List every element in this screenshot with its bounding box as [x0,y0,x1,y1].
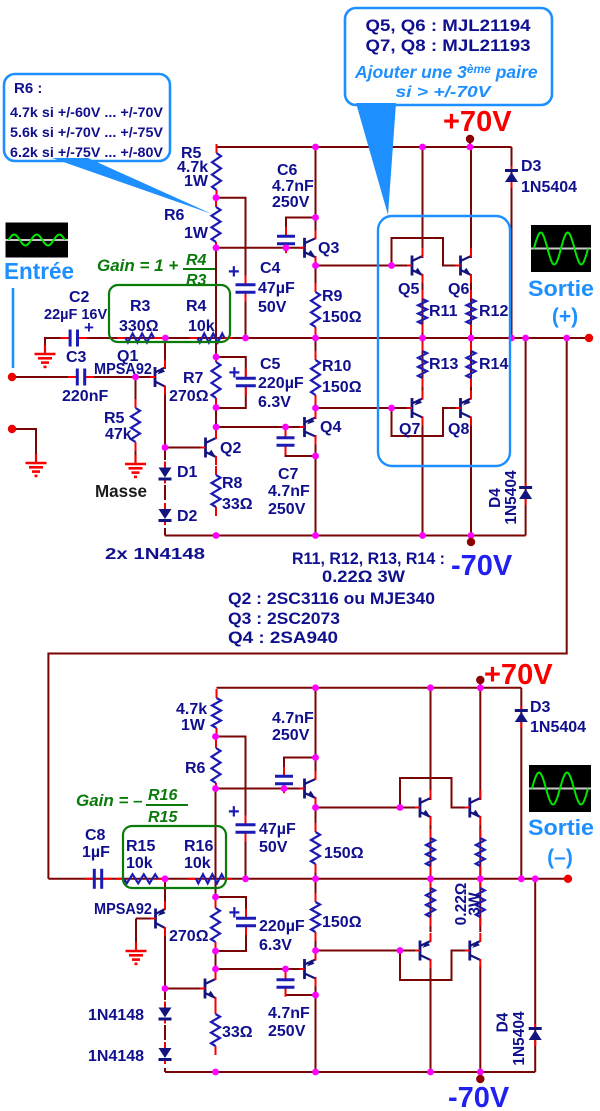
ground Masse R5b [125,455,146,477]
svg-text:Q4: Q4 [320,419,341,436]
wire C4 bottom to feedback rail [245,292,247,338]
label 220uF [258,375,304,392]
diode D3b 1N5404 [515,706,528,728]
label 0.22 rotated [453,883,470,926]
label MPSA92 c2 [94,901,152,918]
label 150 c2a [324,845,364,862]
wire C6b top link [284,758,316,773]
svg-text:1W: 1W [184,173,209,190]
svg-text:C3: C3 [66,349,87,366]
diode D1b 1N4148 [159,1002,172,1024]
label +70V [443,106,512,138]
label 10k [188,318,215,335]
wire output rail 2 [48,878,568,880]
junction2 (215.5,969) [212,966,219,973]
svg-text:R3: R3 [130,298,151,315]
label R11 [429,303,458,320]
resistor 33 c2 [211,1005,220,1055]
svg-text:47µF: 47µF [259,821,296,838]
plus sign C5 [229,362,241,384]
junction2 (521.3,878.8) [518,875,525,882]
svg-text:150Ω: 150Ω [322,914,362,931]
junction (165,447.5) [162,444,169,451]
entree blue lead [12,288,15,368]
capacitor C5 220uF [236,369,256,395]
wire Q7-Q8 base loop [392,408,462,436]
label C6 [277,162,298,179]
label 150 c2b [322,914,362,931]
junction2 (215.5,951) [212,948,219,955]
wire C2 to ground [45,338,71,347]
svg-text:C6: C6 [277,162,298,179]
junction2 (400,807.5) [397,804,404,811]
junction (391.5,408) [388,405,395,412]
label R10 [322,358,351,375]
wire Q4b collector down [315,977,317,1072]
diode D2b 1N4148 [159,1042,172,1064]
junction (315.5,217.5) [312,214,319,221]
label 4.7nF C7 [268,483,310,500]
wire R7 bottom to Q2 [215,408,217,439]
label 22uF 16V [44,307,107,323]
junction2 (165,988.5) [162,985,169,992]
svg-text:33Ω: 33Ω [222,1024,253,1041]
label R14 [479,356,508,373]
resistor R10 150 [311,351,320,404]
junction (422.5,338) [419,335,426,342]
gain formula 2 [76,787,188,826]
wire D4b branch [534,879,536,1072]
wire Q1b collector to D1b [164,928,166,1000]
diode D3 1N5404 [505,166,518,188]
sortie plus scope box [531,225,591,272]
label 3W rotated [467,892,484,916]
wire -70V stub [470,536,472,541]
label 1uF [82,844,110,861]
transistor Q8b [465,933,481,968]
label R9 [322,288,343,305]
junction (315.5,408) [312,405,319,412]
label Q6 [448,281,469,298]
junction (422.5,535.5) [419,532,426,539]
svg-text:47µF: 47µF [258,280,295,297]
svg-text:R16: R16 [148,787,177,804]
svg-text:6.3V: 6.3V [259,937,292,954]
svg-text:3W: 3W [467,892,484,916]
svg-text:220µF: 220µF [259,918,305,935]
wire R10 bottom node [315,395,317,412]
label R3 [130,298,151,315]
resistor R8 33 [212,466,221,516]
wire C3 to Q1 base [89,376,150,378]
wire +70V top rail [217,146,512,148]
resistor R5 4.7k 1W [212,144,221,199]
label D2 [177,508,198,525]
svg-text:D4: D4 [494,1012,511,1032]
wire R7b bottom to Q2b [215,951,217,979]
svg-text:D2: D2 [177,508,198,525]
svg-text:4.7k si +/-60V ... +/-70V: 4.7k si +/-60V ... +/-70V [10,105,163,120]
diode D4 1N5404 [519,483,532,505]
label R8 [222,475,243,492]
svg-text:Q7: Q7 [399,421,420,438]
label 47uF [258,280,295,297]
wire Q4 collector down [315,435,317,536]
entree scope box [6,223,69,258]
svg-text:Q5, Q6 : MJL21194: Q5, Q6 : MJL21194 [366,17,532,35]
svg-text:150Ω: 150Ω [324,845,364,862]
svg-text:C7: C7 [278,466,299,483]
wire Q4 emitter up [315,408,317,419]
wire R5-R6 to C4 top [216,198,246,285]
wire D2b to rail [164,1068,166,1072]
junction (135.5,377) [132,374,139,381]
svg-text:-70V: -70V [448,1082,510,1111]
label 0.22 3W [322,568,405,586]
node -70V c2 [476,1075,484,1083]
label Sortie minus [528,815,594,869]
label Sortie plus [528,276,594,328]
resistor 0.22 c2 Q7 [426,879,435,926]
wire C5b loop [216,897,247,918]
svg-text:C4: C4 [260,260,281,277]
label -70V [451,550,513,582]
junction (216,535.5) [213,532,220,539]
svg-text:6.3V: 6.3V [258,394,291,411]
svg-text:R16: R16 [184,838,213,855]
svg-text:250V: 250V [272,727,310,744]
svg-text:4.7nF: 4.7nF [272,710,314,727]
label Entree [4,258,74,284]
node -70V [467,538,475,546]
wire Q2 base link [165,447,206,449]
label R16 [184,838,213,855]
label 1N5404 D3 [521,179,577,196]
resistor R12 0.22 [467,290,476,333]
label R12 [479,303,508,320]
transistor Q7 [407,391,423,426]
transistor Q4 [300,410,316,445]
svg-text:(–): (–) [547,846,573,869]
wire R11b column [430,825,432,879]
node input terminal [8,373,16,381]
svg-text:1N4148: 1N4148 [88,1007,144,1024]
wire R5b column [135,377,137,408]
junction (216,197.7) [213,194,220,201]
junction2 (315.5,950.5) [312,947,319,954]
junction2 (215.5,897) [212,894,219,901]
label R4 [186,298,207,315]
svg-text:R12: R12 [479,303,508,320]
wire D1b-D2b link [164,1025,166,1040]
junction2 (245.5,878.8) [242,875,249,882]
gain annotation box R15 R16 [123,826,226,888]
wire input2 to ground [12,429,36,455]
resistor 4.7k 1W c2 [212,689,221,737]
svg-text:R4: R4 [186,252,207,269]
wire C7 bottom link [286,448,316,456]
junction2 (430.5,878.8) [427,875,434,882]
label 220nF [62,388,108,405]
wire D2 to bottom rail [164,528,166,536]
label 1N4148 b [88,1048,144,1065]
transistor Q5 [407,248,423,283]
svg-text:R9: R9 [322,288,343,305]
junction2 (284,788.5) [281,785,288,792]
wire Q3b base rail [216,788,305,790]
wire Q7b-Q8b base loop [400,951,469,981]
label 47k [105,426,132,443]
label 1W R6 [184,225,209,242]
wire Q6 collector feed [470,147,472,258]
label D4 rotated [487,488,504,508]
svg-text:22µF 16V: 22µF 16V [44,307,107,323]
wire Q2b base link [165,988,205,990]
junction (216,407.5) [213,404,220,411]
resistor 0.22 c2 Q8 [476,879,485,926]
junction (315.5,147) [312,144,319,151]
junction2 (430.5,1072) [427,1069,434,1076]
svg-text:R6: R6 [164,207,185,224]
transistor Q7b [415,933,431,968]
svg-text:150Ω: 150Ω [322,379,362,396]
junction (216,247.8) [213,244,220,251]
svg-text:R3: R3 [186,272,207,289]
svg-text:(+): (+) [552,305,578,328]
svg-text:+70V: +70V [443,106,512,138]
wire Q7b base rail [316,950,422,952]
junction (285.5,427) [282,424,289,431]
svg-text:+: + [229,902,241,924]
label 250V C7 [268,501,306,518]
resistor 150 c2b [311,893,320,941]
label 10k R16 [184,855,211,872]
wire Q4b emitter up [315,951,317,961]
label 1N5404 D3 c2 [530,719,586,736]
wire R10b bottom node [315,932,317,953]
wire R12 column [470,283,472,338]
wire C5b bottom loop [216,926,247,951]
wire Q1 emitter up [164,338,166,369]
junction (391.5,265.5) [388,262,395,269]
node Sortie+ terminal [585,334,593,342]
resistor R6 1W [212,198,221,251]
wire R13b column [430,879,432,932]
wire C7b bottom link [286,990,316,995]
label 270 [169,388,209,405]
wire Q3 emitter node [315,256,317,292]
svg-text:-70V: -70V [451,550,513,582]
transistor Q3 [300,230,316,265]
wire Q1b emitter up [164,879,166,910]
label C4 [260,260,281,277]
transistor Q4b [300,952,316,987]
junction2 (315.5,807.5) [312,804,319,811]
resistor R16 10k [188,874,232,883]
svg-text:270Ω: 270Ω [169,388,209,405]
label Q8 [448,421,469,438]
svg-text:Q7, Q8 : MJL21193: Q7, Q8 : MJL21193 [366,37,531,55]
wire R14b column [479,879,481,932]
svg-text:6.2k si +/-75V ... +/-80V: 6.2k si +/-75V ... +/-80V [10,145,163,160]
svg-text:10k: 10k [188,318,215,335]
label Q3 [318,240,339,257]
label 1W [184,173,209,190]
label D3 c2 [530,699,551,716]
svg-text:1N4148: 1N4148 [88,1048,144,1065]
svg-text:D3: D3 [530,699,551,716]
label 1N5404 D4 rotated [503,470,520,525]
junction (525.6,338) [522,335,529,342]
wire Q3b collector up [315,688,317,779]
wire D1-D2 link [164,485,166,500]
ground input2 [26,454,47,476]
wire R10 [315,338,317,360]
resistor R7 270 [212,353,221,407]
svg-text:C8: C8 [85,827,106,844]
junction2 (215.5,788.5) [212,785,219,792]
capacitor C6b 4.7nF [275,767,293,793]
svg-text:R6 :: R6 : [14,80,42,97]
label 250V c7b [268,1023,306,1040]
svg-text:1N5404: 1N5404 [511,1011,528,1066]
svg-text:R4: R4 [186,298,207,315]
resistor 0.22 c2 Q6 [476,829,485,875]
junction2 (315.5,757.5) [312,754,319,761]
svg-text:MPSA92: MPSA92 [94,901,152,918]
label 33 c2 [222,1024,253,1041]
svg-text:250V: 250V [268,1023,306,1040]
callout R6 tail [52,158,212,214]
label 220uF c2 [259,918,305,935]
wire D4 branch [525,338,527,536]
junction2 (315.5,878.8) [312,875,319,882]
label 47uF c2 [259,821,296,838]
svg-text:R11: R11 [429,303,458,320]
callout MJL box [345,8,552,105]
label Q2 [220,440,241,457]
junction (471,535.5) [468,532,475,539]
junction2 (480.3,1072) [477,1069,484,1076]
label Q3 type [228,610,340,628]
ground Q1b base [126,942,147,964]
wire R10b [315,879,317,902]
junction (245.5,338) [242,335,249,342]
wire Q8b collector down [479,966,481,1072]
svg-text:2x 1N4148: 2x 1N4148 [105,546,205,563]
wire R6b bottom to R7b [215,789,217,898]
wire Q6b collector feed [479,688,481,800]
label D1 [177,464,198,481]
svg-text:50V: 50V [259,839,288,856]
svg-text:1N5404: 1N5404 [521,179,577,196]
svg-text:0.22Ω 3W: 0.22Ω 3W [322,568,405,586]
junction (315.5,535.5) [312,532,319,539]
plus sign C5b [229,902,241,924]
svg-text:C2: C2 [69,289,90,306]
junction (165.4,338) [162,335,169,342]
svg-text:MPSA92: MPSA92 [94,361,152,378]
node +70V c2 [476,676,484,684]
wire Q1b base to ground [136,919,153,944]
resistor R15 10k [116,874,166,883]
plus sign C2 [84,318,94,337]
junction (422.5,147) [419,144,426,151]
wire R5b to ground [135,446,137,456]
svg-text:1N5404: 1N5404 [530,719,586,736]
label 4.7nF c2 [272,710,314,727]
wire Q5-Q6 base loop [392,238,462,266]
junction2 (285.5,969) [282,966,289,973]
wire -70V rail 2 [165,1071,535,1073]
svg-text:33Ω: 33Ω [222,496,253,513]
capacitor C4 47uF [236,275,256,301]
wire -70V stub 2 [479,1072,481,1077]
wire output to circuit2 feedback [48,338,566,879]
label C2 [69,289,90,306]
capacitor C4b 47uF [236,815,256,841]
svg-text:4.7nF: 4.7nF [268,1005,310,1022]
label R6 [164,207,185,224]
label 1N5404 D4b rotated [511,1011,528,1066]
svg-text:Q5: Q5 [398,281,419,298]
resistor R9 150 [311,283,320,336]
wire +70V stub [469,141,471,147]
capacitor C7b 4.7nF [277,970,295,996]
svg-text:Q2: Q2 [220,440,241,457]
wire Q5b base rail [316,807,422,809]
wire Q4b base rail [216,968,305,970]
svg-text:1W: 1W [181,717,206,734]
svg-text:Q3 : 2SC2073: Q3 : 2SC2073 [228,610,340,628]
capacitor C2 22uF [61,330,87,347]
junction2 (215.5,736.5) [212,733,219,740]
transistor Q6b [465,790,481,825]
svg-text:+: + [228,801,240,823]
transistor Q8 [456,391,472,426]
junction (315.5,338) [312,335,319,342]
label 330 [119,318,159,335]
wire -70V bottom rail [165,535,526,537]
label 250V [272,194,310,211]
gain formula 1 [97,252,215,289]
svg-text:+: + [229,362,241,384]
svg-text:47k: 47k [105,426,132,443]
svg-text:Q6: Q6 [448,281,469,298]
label R7 [183,370,204,387]
wire Q7 collector down [422,424,424,536]
label Q7 [399,421,420,438]
wire Q3 collector up [315,147,317,238]
svg-text:Q8: Q8 [448,421,469,438]
capacitor C3 220nF [68,369,94,386]
label D3 [521,158,542,175]
svg-text:4.7nF: 4.7nF [268,483,310,500]
plus sign C4 [228,261,240,283]
junction2 (315.5,995) [312,992,319,999]
svg-text:1N5404: 1N5404 [503,470,520,525]
resistor R11 0.22 [418,290,427,333]
label 4.7k c2 [176,701,207,718]
junction2 (165,878.8) [162,875,169,882]
label Q1 [117,348,138,365]
resistor R4 10k [190,334,233,343]
transistor MPSA92 c2 [151,901,166,936]
wire +70V rail 2 [217,687,522,689]
wire C5 bottom loop [216,386,246,408]
svg-text:+: + [228,261,240,283]
node input2 terminal [8,425,16,433]
